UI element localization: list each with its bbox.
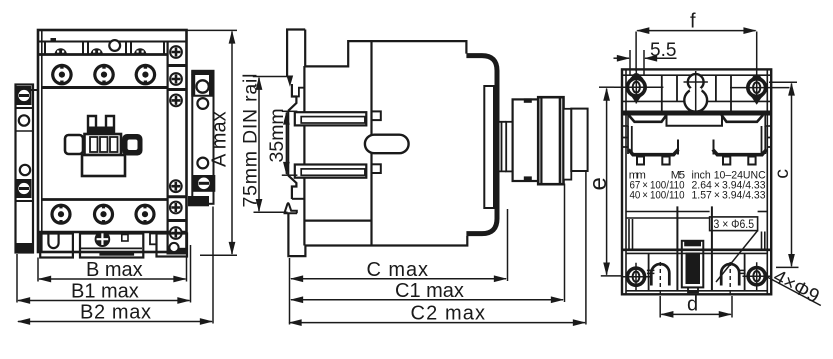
- c tick top: [769, 81, 797, 83]
- big screw 2: [93, 64, 115, 86]
- svg-text:A max: A max: [209, 111, 231, 167]
- front inner left edge: [41, 30, 43, 252]
- 3xphi6.5 leader: [716, 231, 758, 282]
- 75mm tick top: [253, 76, 290, 78]
- bottom screw band bottom line: [38, 231, 187, 233]
- right column bottom dark bar: [167, 248, 187, 255]
- B max dim line: [39, 278, 186, 280]
- knob circle top: [109, 40, 120, 51]
- svg-text:B2 max: B2 max: [80, 302, 151, 324]
- lower bracket left: [629, 219, 633, 250]
- corner tab left: [622, 115, 628, 127]
- din clip small step: [292, 198, 305, 200]
- left mount screw: [614, 71, 663, 104]
- base center phillips screw: [95, 231, 111, 247]
- center left rounded square: [65, 135, 83, 154]
- svg-text:f: f: [690, 11, 696, 33]
- center clip channel: [677, 206, 712, 290]
- svg-text:c: c: [771, 169, 793, 179]
- left aux top cap: [16, 89, 39, 91]
- svg-text:B1 max: B1 max: [71, 281, 139, 303]
- claw bar right: [713, 150, 767, 155]
- left slot hole: [630, 76, 644, 98]
- right column divider: [167, 42, 169, 253]
- right aux slotted screw in dark cap: [192, 175, 215, 192]
- pill handle: [365, 135, 409, 154]
- bottom screw 1: [50, 204, 71, 225]
- B2 ext right: [212, 207, 214, 324]
- side back vertical: [303, 66, 305, 246]
- svg-text:4×Φ9: 4×Φ9: [770, 265, 823, 307]
- base center line: [81, 247, 142, 249]
- d dim line: [661, 313, 731, 315]
- bottom left cell: [648, 253, 650, 290]
- svg-text:C1 max: C1 max: [395, 280, 464, 302]
- coil block D: [571, 109, 587, 171]
- coil block A tab bottom: [524, 176, 532, 181]
- C ext left: [289, 258, 291, 325]
- rear outer box: [622, 69, 771, 294]
- bottom screw right: [743, 262, 772, 290]
- claw bar left: [629, 150, 679, 155]
- right aux circle 1: [196, 80, 208, 92]
- din rail face: [287, 111, 289, 176]
- center mid block: [85, 134, 122, 155]
- coil block A tab top: [524, 98, 532, 102]
- 75mm tick bottom: [254, 211, 288, 213]
- C1 ext right: [564, 184, 566, 303]
- rail strip right trapezoid: [722, 115, 764, 122]
- din claw upper pocket: [296, 88, 304, 97]
- left aux slotted screw bottom: [17, 179, 32, 198]
- base right box: [157, 234, 188, 257]
- bottom band top line: [622, 249, 771, 252]
- B ext right: [186, 257, 188, 282]
- base right circle: [169, 243, 178, 252]
- arc connector left: [647, 270, 655, 273]
- lower bracket right: [762, 232, 765, 250]
- right aux top bar: [191, 70, 213, 75]
- side back block: [305, 30, 466, 67]
- side bottom line: [305, 236, 467, 246]
- clip spring black: [684, 241, 701, 247]
- right slot dark caps: [752, 74, 761, 79]
- c dim line: [791, 84, 793, 267]
- 35mm tick top: [282, 110, 298, 112]
- hinge lines: [500, 122, 507, 172]
- coil block B: [538, 97, 563, 184]
- f ext left: [635, 32, 637, 72]
- armature thin plate: [564, 109, 572, 180]
- base center box: [80, 234, 143, 258]
- C ext right: [507, 209, 509, 281]
- center bottom rect: [82, 155, 125, 176]
- terminal strip screw head 3: [134, 48, 146, 54]
- side bottom foot: [288, 213, 305, 256]
- rail strip left trapezoid: [629, 115, 667, 122]
- left slot dark caps: [632, 73, 641, 77]
- arc hole right: [721, 264, 739, 286]
- left aux outline: [16, 85, 34, 253]
- lower horizontal lines: [626, 211, 710, 213]
- slat 1 tray: [295, 112, 367, 125]
- terminal strip screw head 1: [55, 48, 67, 54]
- arc hole right axis: [729, 262, 731, 296]
- svg-text:e: e: [585, 177, 612, 190]
- right mount screw: [730, 71, 790, 104]
- d ext right: [731, 296, 733, 318]
- din claw top tooth: [287, 76, 292, 85]
- left aux bottom cap: [16, 243, 32, 253]
- bottom screw 3: [134, 204, 155, 225]
- bottom screw 2: [93, 204, 114, 225]
- right aux posts: [191, 75, 195, 96]
- d ext left: [659, 296, 661, 318]
- bottom right cell: [744, 253, 746, 290]
- din clip spring tooth: [284, 203, 298, 213]
- claw feet right: [723, 157, 730, 165]
- side thick front band: [466, 56, 497, 234]
- rear band verticals: [661, 75, 663, 112]
- svg-text:5.5: 5.5: [650, 40, 676, 61]
- phillips screw bottom 3: [169, 226, 183, 240]
- B1 ext left: [16, 254, 18, 303]
- center armature posts: [88, 116, 114, 135]
- bottom screw band top line: [42, 198, 168, 201]
- 35mm tick bottom: [282, 174, 298, 176]
- front plate 1: [484, 86, 494, 208]
- rail strip thick top line: [623, 113, 770, 116]
- rear top band lines: [622, 74, 771, 76]
- 3xphi6.5 box: [710, 217, 758, 231]
- top plate nub: [51, 38, 57, 42]
- right aux cap line: [191, 95, 213, 97]
- mid block windows: [90, 137, 98, 152]
- rail strip center recess: [667, 115, 723, 126]
- base left foot box: [40, 234, 73, 258]
- terminal strip dividers: [44, 43, 46, 55]
- svg-text:d: d: [687, 294, 698, 316]
- phillips screw bottom 1: [169, 179, 183, 193]
- base center notch: [122, 235, 128, 242]
- front plate 2: [506, 122, 512, 172]
- svg-text:C2 max: C2 max: [411, 303, 486, 325]
- left bracket: [622, 126, 632, 154]
- phillips screw top 1: [169, 45, 183, 59]
- C2 max dim line: [290, 322, 586, 324]
- base right stub: [150, 234, 157, 245]
- e tick bottom: [601, 275, 621, 277]
- 35mm dim line: [285, 113, 287, 175]
- big screw row band bottom line: [42, 86, 168, 89]
- C1 max dim line: [291, 299, 563, 301]
- arc connector right: [738, 270, 746, 273]
- svg-text:40 × 100/110: 40 × 100/110: [630, 190, 685, 202]
- A max ext bottom: [200, 254, 237, 256]
- center legs: [678, 140, 714, 155]
- left aux mid line: [16, 130, 34, 132]
- 5.5 arrow right with tail: [645, 57, 677, 59]
- svg-text:1.57 × 3.94/4.33: 1.57 × 3.94/4.33: [692, 190, 766, 202]
- slat 1 end cap: [372, 111, 381, 120]
- terminal strip bottom thick line: [38, 53, 168, 56]
- svg-text:75mm DIN rail: 75mm DIN rail: [240, 74, 262, 208]
- right slot hole: [750, 77, 764, 99]
- phillips screw bottom 2: [169, 201, 183, 215]
- front body outline: [38, 30, 187, 252]
- right aux outline: [192, 71, 213, 204]
- left aux circle bottom: [20, 165, 30, 175]
- din claw lower profile: [288, 175, 296, 199]
- phillips screw top 2: [169, 72, 183, 86]
- coil block B inner edges: [540, 97, 542, 184]
- left aux line: [16, 107, 34, 109]
- C max dim line: [291, 278, 506, 280]
- bottom screw left: [622, 263, 651, 291]
- 5.5 ext lines: [629, 50, 631, 76]
- e tick top: [599, 86, 614, 88]
- A max ext top: [187, 29, 238, 31]
- base center dark bar: [99, 252, 134, 256]
- claw feet left: [637, 157, 644, 165]
- left aux lower line: [16, 200, 34, 202]
- side inner vertical: [370, 41, 372, 245]
- f dim line: [637, 30, 755, 32]
- coil block A: [513, 99, 539, 181]
- B ext left: [37, 258, 39, 282]
- corner tab right: [765, 115, 771, 127]
- center clip box: [682, 241, 704, 288]
- right aux circle 3: [197, 158, 208, 169]
- slat 2 end cap: [372, 164, 381, 173]
- C2 ext right: [585, 172, 587, 325]
- left aux circle top: [19, 115, 29, 125]
- big screw 3: [135, 64, 157, 86]
- center right rounded square: [122, 134, 143, 156]
- side chimney: [287, 30, 305, 77]
- bottom band inner bottom: [626, 290, 767, 292]
- svg-text:C max: C max: [367, 259, 429, 281]
- svg-text:B max: B max: [86, 259, 143, 281]
- slat 2 tray: [295, 165, 367, 178]
- A max dim line: [231, 32, 233, 255]
- phillips screw top 3: [169, 94, 183, 108]
- arc hole left axis: [659, 262, 661, 296]
- side inner horizontal: [304, 220, 371, 222]
- right bracket: [762, 126, 772, 154]
- right aux circle 2: [197, 98, 208, 109]
- center keyhole: [684, 71, 708, 112]
- c tick bottom: [776, 266, 799, 268]
- bottom band inner line: [626, 252, 767, 254]
- 5.5 arrow left: [614, 57, 630, 59]
- e dim line: [606, 89, 608, 275]
- base U notch: [48, 234, 58, 249]
- f ext right: [756, 32, 758, 72]
- B1 max dim line: [18, 300, 190, 302]
- B2 max dim line: [18, 321, 212, 323]
- head white dots: [57, 51, 144, 53]
- 75mm dim line: [258, 78, 260, 211]
- arc hole left: [651, 264, 669, 286]
- left aux slotted screw top: [17, 86, 32, 105]
- right aux bottom dark bar: [188, 196, 209, 206]
- right column separators bottom: [168, 197, 187, 221]
- center armature crossbar: [89, 127, 113, 134]
- svg-text:35mm: 35mm: [266, 108, 288, 162]
- front top plate line: [38, 41, 187, 43]
- 4xphi9 leader: [767, 277, 821, 306]
- din claw upper profile: [288, 84, 296, 111]
- svg-text:3 × Φ6.5: 3 × Φ6.5: [714, 217, 755, 231]
- B1 ext right: [190, 245, 192, 303]
- right column separators top: [168, 66, 187, 90]
- clip bottom piece: [688, 287, 698, 292]
- rear inner side lines: [625, 69, 627, 294]
- terminal strip screw head 2: [91, 48, 103, 54]
- big screw 1: [51, 64, 73, 86]
